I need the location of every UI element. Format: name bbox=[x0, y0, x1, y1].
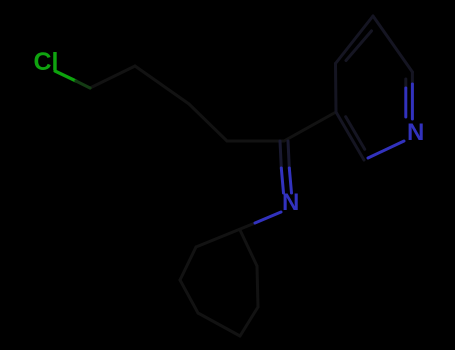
svg-text:N: N bbox=[282, 189, 299, 216]
svg-text:Cl: Cl bbox=[34, 48, 59, 76]
svg-text:N: N bbox=[407, 119, 424, 146]
